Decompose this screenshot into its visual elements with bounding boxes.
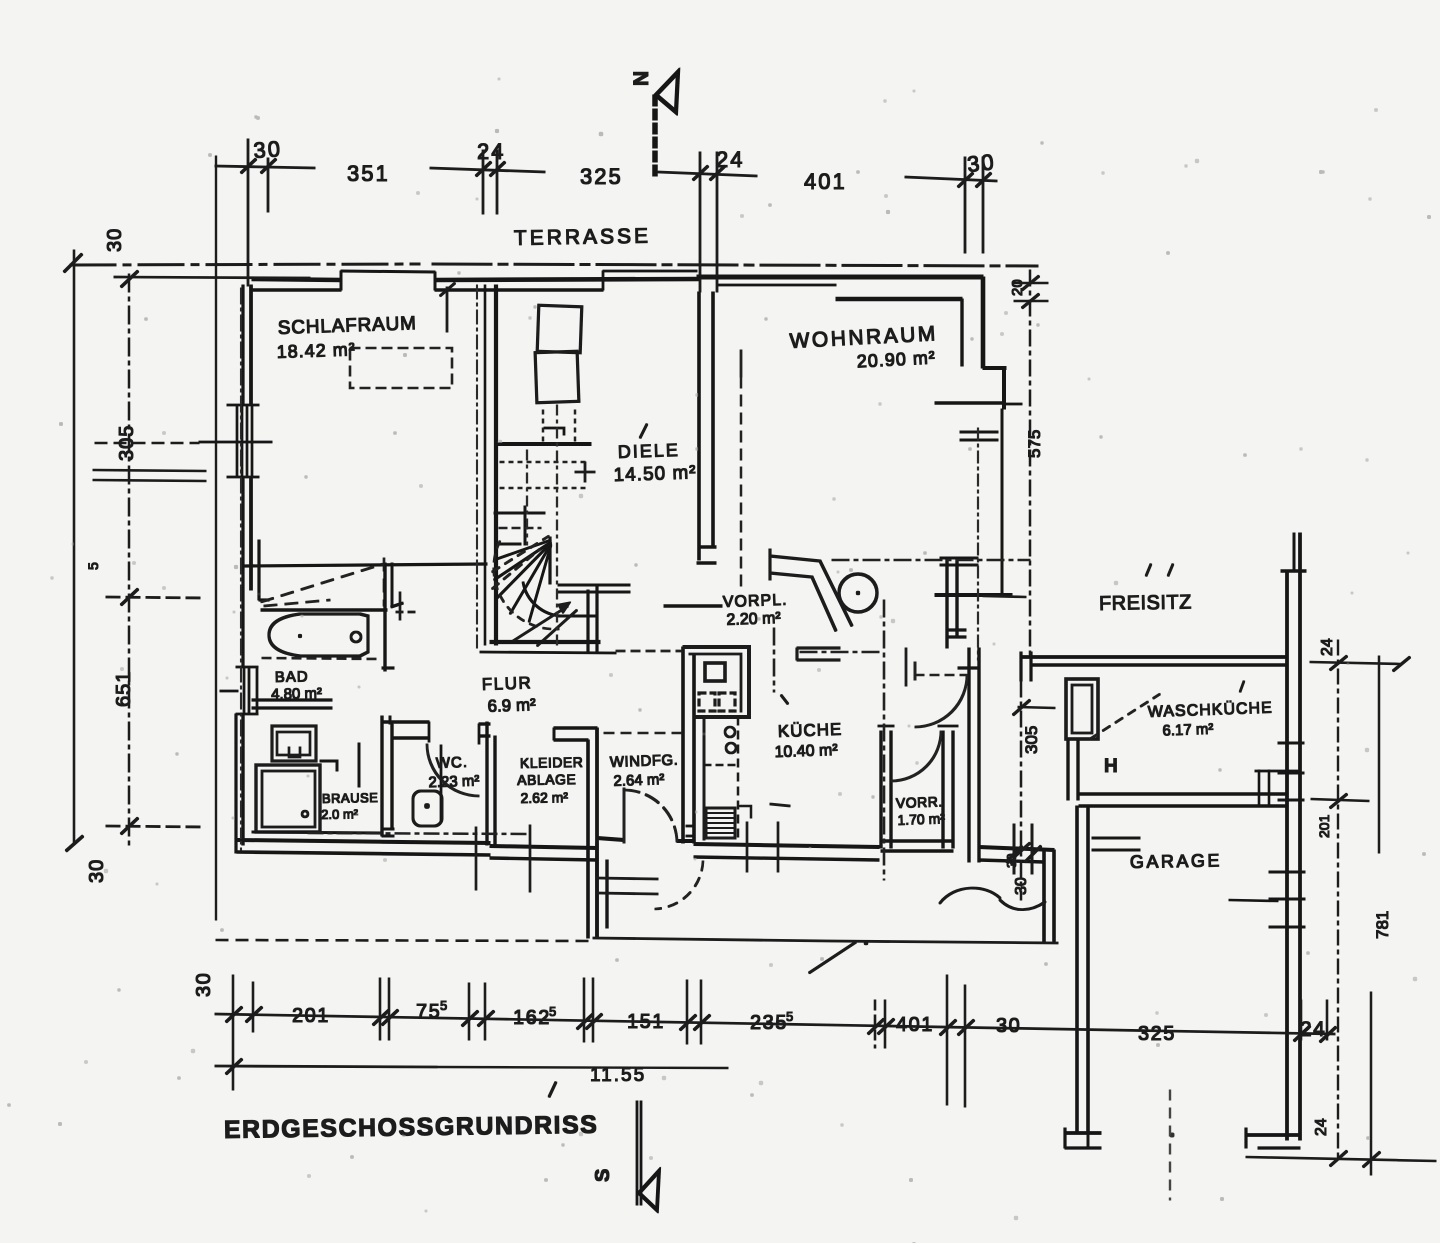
bad east wall [382, 563, 403, 671]
freisitz label [1099, 591, 1192, 615]
svg-text:305: 305 [116, 425, 138, 461]
stair newel and rail [550, 537, 630, 616]
svg-text:575: 575 [1025, 430, 1044, 458]
stair dashed diagonals upper [492, 536, 549, 589]
window schlafraum west [199, 405, 272, 477]
south arrow [637, 1101, 659, 1210]
terrace edge line [64, 254, 1038, 272]
svg-text:30: 30 [104, 228, 126, 252]
bottom chain slashes [226, 1007, 1336, 1042]
stair walk line dashed [494, 541, 559, 629]
vorplatz sill bar [664, 605, 722, 607]
entrance door windfang [624, 788, 677, 843]
right edge dimension chains [1246, 640, 1436, 1175]
kitchen counter line [704, 717, 739, 840]
top chain tick slashes [241, 159, 991, 187]
svg-text:1.70 m²: 1.70 m² [897, 810, 945, 828]
stairwell axis dashes [527, 405, 557, 645]
svg-text:201: 201 [1316, 814, 1332, 838]
west wall of house [236, 285, 269, 853]
svg-text:5: 5 [549, 1004, 558, 1019]
NE corner jog [981, 277, 985, 368]
bad north wall [261, 609, 387, 612]
svg-text:VORPL.: VORPL. [723, 592, 788, 611]
exterior entrance steps [597, 878, 658, 894]
svg-text:S: S [592, 1169, 614, 1182]
bad door jamb flur [396, 592, 417, 620]
stair cabinet dashes [500, 410, 590, 488]
svg-text:FREISITZ: FREISITZ [1099, 591, 1192, 615]
kueche east wall [958, 648, 979, 862]
section line through south rooms [308, 833, 526, 834]
entrance dashed arc [655, 861, 703, 909]
svg-text:GARAGE: GARAGE [1130, 850, 1222, 872]
wohnraum label [789, 322, 939, 375]
bad label [271, 668, 322, 703]
flur kueche gap dashes [616, 650, 683, 652]
north arrow [655, 72, 678, 178]
north wall outer face [252, 271, 1022, 409]
schlafraum wardrobe dashed [350, 348, 452, 388]
stair treads upper [494, 506, 545, 545]
diele east wall [697, 292, 716, 563]
svg-text:SCHLAFRAUM: SCHLAFRAUM [277, 313, 417, 339]
kleider windfang divider wall [588, 728, 597, 938]
wc north wall + door [382, 722, 490, 744]
east wall wohnraum with window [935, 409, 1012, 595]
svg-text:WINDFG.: WINDFG. [610, 752, 679, 771]
top dimension chain line [215, 166, 997, 181]
windfang label [610, 752, 680, 790]
svg-text:5: 5 [85, 561, 101, 570]
svg-text:2.62 m²: 2.62 m² [520, 789, 568, 806]
kleiderablage north wall [554, 728, 597, 740]
svg-text:4.80 m²: 4.80 m² [271, 685, 322, 703]
washbasin brause [272, 726, 316, 761]
se corner walls [979, 847, 1054, 942]
terrain squiggles [864, 888, 1045, 945]
bad south dashed [262, 658, 380, 659]
svg-text:24: 24 [477, 139, 505, 164]
waschkueche dashes [1090, 694, 1160, 739]
se door ticks [1006, 824, 1041, 874]
garage east wall foot [1246, 1128, 1300, 1148]
bottom chain labels [193, 972, 1326, 1045]
diele label [612, 439, 696, 486]
property line west [73, 250, 75, 843]
svg-text:30: 30 [193, 972, 215, 997]
svg-text:6.9 m²: 6.9 m² [487, 695, 536, 716]
svg-text:781: 781 [1373, 911, 1392, 939]
wc kleider divider wall [487, 722, 495, 845]
freisitz south wall [1021, 652, 1287, 681]
bad brause divider [252, 700, 332, 708]
svg-text:5: 5 [786, 1009, 795, 1024]
kitchen stove hatched [706, 806, 751, 838]
vorplatz label [723, 592, 789, 629]
schlafraum south wall [244, 564, 487, 566]
svg-text:2.64 m²: 2.64 m² [613, 771, 664, 790]
waschkueche label [1148, 699, 1274, 740]
svg-text:DIELE: DIELE [617, 440, 680, 462]
window bad west [220, 667, 258, 714]
svg-text:11.55: 11.55 [590, 1065, 646, 1086]
dashed sight line schlafraum [261, 558, 384, 606]
svg-text:20: 20 [1009, 279, 1026, 296]
window schlafraum north [341, 271, 435, 272]
bathtub [269, 614, 368, 656]
svg-text:18.42 m²: 18.42 m² [276, 339, 356, 362]
brause label [321, 790, 379, 822]
svg-text:2.23 m²: 2.23 m² [428, 773, 479, 792]
west facade path double line [93, 470, 206, 481]
svg-text:651: 651 [113, 671, 135, 707]
basement outline lower [216, 938, 1058, 943]
wohnraum roof overhang dashed [740, 377, 742, 590]
svg-text:30: 30 [86, 859, 108, 883]
kueche label [773, 720, 843, 761]
waschkueche chimney pier [1066, 679, 1098, 739]
vorrat label [896, 793, 946, 828]
svg-text:30: 30 [1013, 877, 1030, 895]
leader slash [809, 942, 856, 973]
svg-text:TERRASSE: TERRASSE [514, 225, 652, 250]
entrance column circle [839, 574, 877, 612]
svg-text:2.0 m²: 2.0 m² [321, 806, 359, 822]
wc door arc [427, 744, 479, 796]
svg-text:KLEIDER: KLEIDER [520, 754, 584, 771]
svg-text:2.20 m²: 2.20 m² [726, 610, 781, 629]
svg-text:325: 325 [580, 164, 623, 189]
wc label [428, 754, 480, 792]
brause partition stub [358, 743, 360, 787]
svg-text:30: 30 [996, 1015, 1021, 1037]
stairwell south wall [480, 587, 616, 653]
svg-text:ERDGESCHOSSGRUNDRISS: ERDGESCHOSSGRUNDRISS [224, 1111, 599, 1144]
wc west wall [382, 716, 394, 836]
svg-text:5: 5 [440, 998, 449, 1013]
east wall window waschkueche [1278, 743, 1304, 800]
section line A-A [774, 560, 1030, 880]
svg-text:24: 24 [1313, 1118, 1330, 1136]
vorplatz east wall [946, 560, 966, 648]
svg-text:351: 351 [347, 161, 390, 186]
stair winder fan [494, 540, 551, 622]
north wall inner face [252, 289, 341, 292]
svg-text:BAD: BAD [275, 668, 309, 686]
svg-text:401: 401 [804, 169, 847, 194]
svg-text:H: H [1104, 756, 1118, 777]
svg-text:401: 401 [896, 1014, 934, 1036]
svg-text:235: 235 [750, 1012, 788, 1034]
kueche door arc [915, 662, 967, 727]
wc toilet [413, 791, 442, 826]
stair landing beam [497, 443, 591, 446]
svg-text:VORR.: VORR. [896, 793, 943, 811]
svg-text:325: 325 [1138, 1023, 1176, 1045]
top chain labels [253, 136, 997, 194]
svg-text:KÜCHE: KÜCHE [777, 720, 842, 741]
window wohnraum north [717, 284, 836, 286]
waschkueche west wall [1068, 739, 1078, 800]
stair hall west wall [485, 285, 496, 645]
svg-text:WC.: WC. [436, 754, 469, 772]
kleiderablage label [517, 754, 584, 806]
vorrat door arc [891, 731, 941, 781]
diele wardrobe rects [535, 305, 582, 402]
stair walk diagonals [513, 603, 577, 646]
windfang kueche divider wall [683, 647, 694, 843]
dim ext lines south [476, 804, 790, 892]
east wall window garage [1229, 872, 1305, 927]
svg-text:20.90 m²: 20.90 m² [856, 347, 936, 371]
svg-text:24: 24 [716, 147, 744, 172]
stair tread arc [523, 582, 562, 616]
schlafraum interior tick [440, 283, 906, 686]
svg-text:24: 24 [1300, 1018, 1326, 1041]
shower tray [256, 765, 320, 832]
svg-text:151: 151 [627, 1011, 665, 1033]
svg-text:ABLAGE: ABLAGE [517, 771, 576, 788]
vorrat pantry walls [878, 726, 958, 851]
svg-text:FLUR: FLUR [481, 673, 532, 694]
svg-text:14.50 m²: 14.50 m² [613, 462, 697, 486]
garage door center dashes [1169, 1090, 1171, 1200]
svg-text:24: 24 [1319, 638, 1336, 656]
windfang north dashed boundary [604, 732, 683, 734]
svg-text:6.17 m²: 6.17 m² [1162, 721, 1213, 740]
wc plumbing partition [440, 745, 442, 822]
kitchen upper unit [683, 647, 749, 717]
top chain extension lines [248, 139, 983, 292]
diele tick cross [575, 462, 595, 482]
svg-text:30: 30 [253, 136, 283, 163]
svg-text:30: 30 [966, 149, 997, 177]
svg-text:WASCHKÜCHE: WASCHKÜCHE [1148, 699, 1274, 721]
terrace inner edge vertical [215, 156, 217, 920]
svg-text:305: 305 [1022, 726, 1041, 754]
svg-text:10.40 m²: 10.40 m² [774, 742, 838, 761]
svg-text:BRAUSE: BRAUSE [322, 790, 379, 806]
overall dimension line [215, 1059, 728, 1074]
svg-text:162: 162 [513, 1007, 551, 1029]
schlafraum label [275, 313, 417, 362]
windfang south walls [597, 838, 694, 938]
terrace door diele north [603, 270, 697, 272]
cellar stair band [770, 549, 852, 660]
garage west wall [1065, 806, 1101, 1148]
flur label [481, 673, 536, 716]
svg-text:N: N [630, 71, 653, 86]
kueche south wall [694, 844, 879, 860]
garage interior jamb [1092, 838, 1140, 850]
svg-text:201: 201 [292, 1005, 330, 1027]
svg-text:75: 75 [416, 1001, 441, 1023]
east wall upper (waschkueche) [1281, 533, 1306, 1140]
waschkueche south wall [1079, 770, 1298, 806]
west wall axis dash-dot [240, 288, 242, 850]
